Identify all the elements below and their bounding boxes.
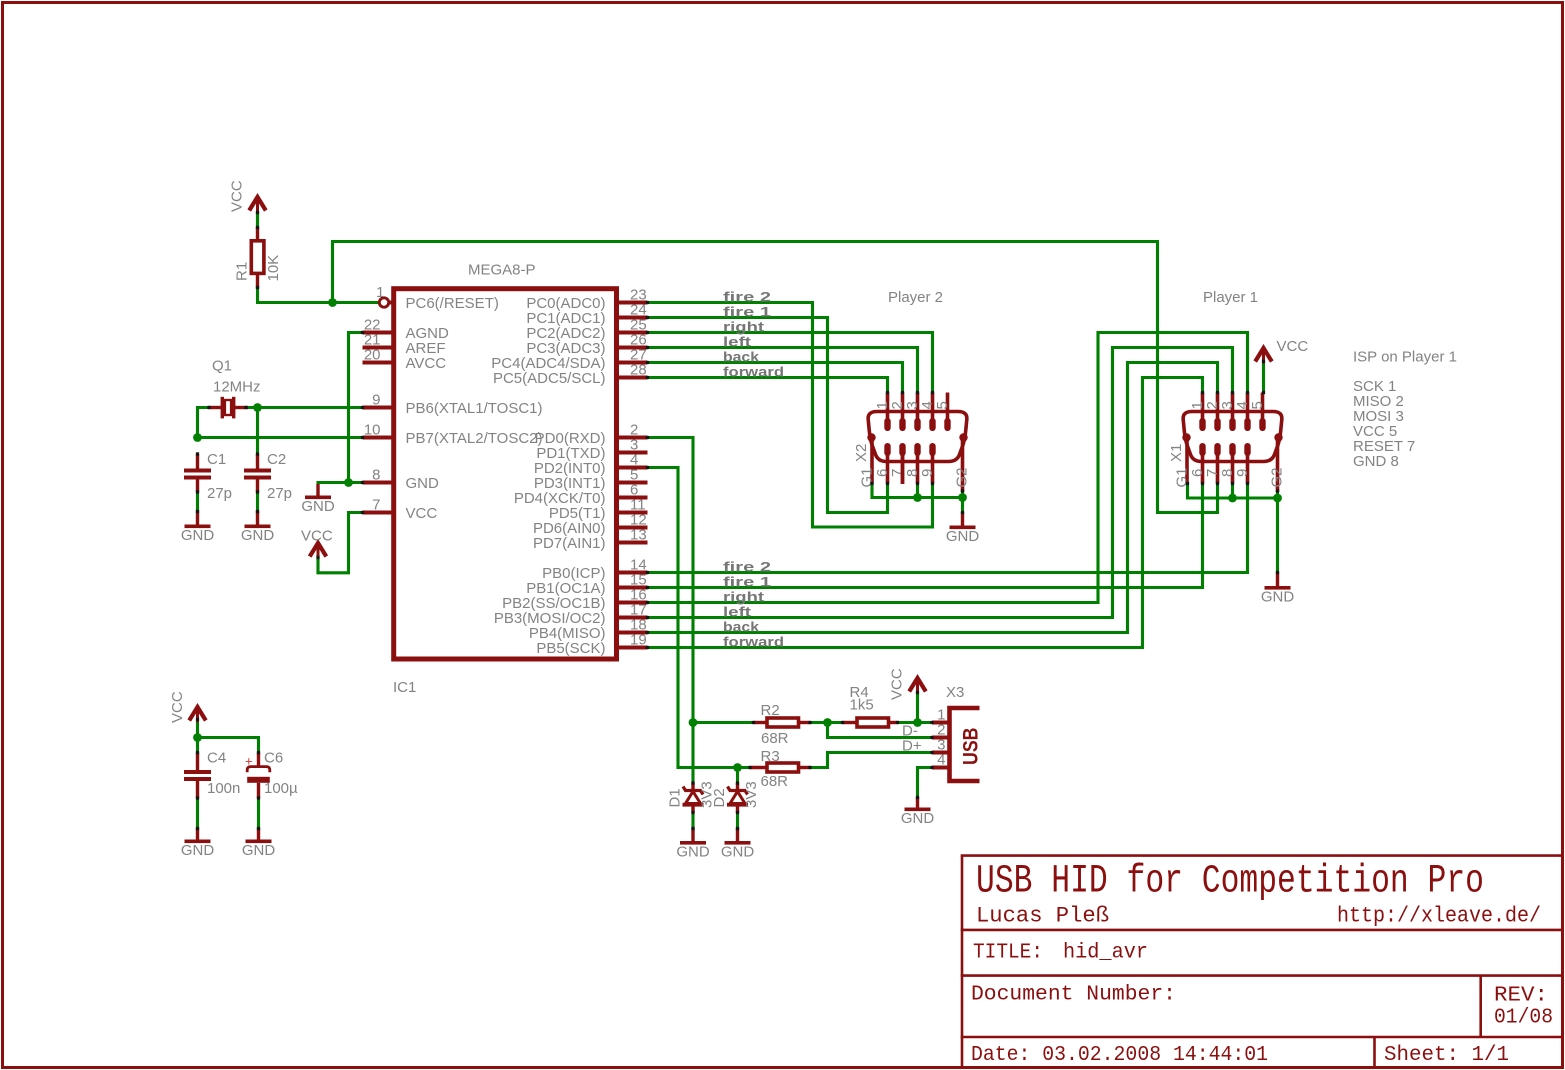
junction VCC/C4/C6 — [193, 733, 202, 742]
svg-text:REV:: REV: — [1494, 985, 1548, 1008]
svg-text:fire 2: fire 2 — [723, 289, 771, 305]
svg-text:G2: G2 — [1269, 467, 1286, 487]
zener diode D1 3V3 — [691, 783, 694, 791]
IC1 pin 27 PC4(ADC4/SDA) — [619, 361, 648, 365]
svg-text:IC1: IC1 — [393, 679, 416, 696]
wire net fire_1 P1 (PB1 pin15) to X1 pin6 — [648, 484, 1203, 588]
IC1 pin 2 PD0(RXD) — [619, 436, 648, 440]
wire R3 right to USB pin3 — [810, 753, 933, 768]
ground symbol at IC1 pin8 — [316, 484, 319, 496]
resistor R4 1k5 — [842, 721, 857, 724]
wire R4 right to VCC junction and USB pin1 — [897, 721, 932, 724]
svg-text:Sheet: 1/1: Sheet: 1/1 — [1384, 1044, 1509, 1067]
svg-text:X2: X2 — [853, 444, 870, 462]
svg-text:GND: GND — [676, 844, 710, 861]
svg-text:Lucas Pleß: Lucas Pleß — [976, 904, 1109, 929]
junction VCC/USB pin1 — [913, 718, 922, 727]
svg-text:GND: GND — [242, 842, 276, 859]
IC1 pin 14 PB0(ICP) — [619, 571, 648, 575]
svg-text:4: 4 — [937, 752, 945, 769]
svg-text:01/08: 01/08 — [1494, 1007, 1553, 1030]
IC1 pin 24 PC1(ADC1) — [619, 316, 648, 320]
IC1 pin 25 PC2(ADC2) — [619, 331, 648, 335]
IC1 pin 12 PD6(AIN0) — [619, 526, 648, 530]
svg-text:VCC: VCC — [1277, 338, 1309, 355]
IC1 pin 19 PB5(SCK) — [619, 646, 648, 650]
svg-text:C1: C1 — [207, 451, 226, 468]
svg-text:X1: X1 — [1168, 444, 1185, 462]
wire X1 pin5 to VCC arrow — [1262, 361, 1265, 393]
wire R2 right to R4 junction — [810, 721, 828, 724]
IC1 pin 16 PB2(SS/OC1B) — [619, 601, 648, 605]
junction R2/R4/D- — [823, 718, 832, 727]
svg-text:27p: 27p — [207, 485, 232, 502]
IC1 pin 4 PD2(INT0) — [619, 466, 648, 470]
svg-text:19: 19 — [630, 632, 647, 649]
svg-text:VCC: VCC — [169, 691, 186, 723]
IC1 pin 26 PC3(ADC3) — [619, 346, 648, 350]
ground symbol below C2 — [256, 511, 259, 525]
svg-text:back: back — [723, 349, 759, 365]
connector X2 DB9 Player 2 — [868, 412, 967, 462]
X3 pin 3 — [932, 751, 948, 755]
wire net forward (PC5 pin28) to X2 pin1 — [648, 378, 888, 393]
capacitor C1 27p — [196, 454, 199, 469]
junction RESET at pin1 wire — [328, 298, 337, 307]
svg-text:+: + — [245, 754, 253, 769]
svg-text:GND: GND — [946, 528, 980, 545]
wire AGND to GND vertical — [349, 333, 363, 483]
svg-text:PC6(/RESET): PC6(/RESET) — [406, 295, 499, 312]
X3 pin 1 — [932, 721, 948, 725]
wire X2 G2 to ground symbol — [961, 491, 964, 513]
svg-text:D2: D2 — [711, 788, 728, 807]
IC1 pin 8 GND — [363, 481, 392, 485]
wire C6 bottom to ground — [257, 798, 260, 829]
zener diode D2 3V3 — [736, 783, 739, 791]
svg-text:Player 2: Player 2 — [888, 289, 943, 306]
svg-text:D1: D1 — [667, 788, 684, 807]
wire XTAL2 up to crystal left — [198, 408, 211, 438]
svg-text:left: left — [723, 334, 751, 350]
svg-text:8: 8 — [372, 467, 380, 484]
svg-text:VCC: VCC — [301, 528, 333, 545]
svg-text:D+: D+ — [902, 738, 922, 755]
wire net left (PC3 pin26) to X2 pin3 — [648, 348, 918, 393]
wire X1 G2 to ground symbol — [1276, 491, 1279, 573]
wire XTAL1 net pin9 — [244, 406, 363, 409]
junction X2 G2 bus — [958, 493, 967, 502]
svg-text:5: 5 — [1249, 401, 1266, 409]
X3 pin 2 — [932, 736, 948, 740]
wire net D+ from IC1 pin4 — [648, 468, 751, 768]
junction X1 pin8 bus — [1228, 494, 1237, 503]
svg-text:right: right — [723, 319, 764, 335]
svg-text:10K: 10K — [265, 255, 282, 282]
wire net right (PC2 pin25) to X2 pin4 — [648, 333, 933, 393]
svg-text:R1: R1 — [234, 262, 251, 281]
VCC supply at IC1 pin7 — [310, 543, 327, 557]
svg-text:GND: GND — [406, 475, 440, 492]
svg-text:GND 8: GND 8 — [1353, 453, 1399, 470]
capacitor C4 100n — [196, 753, 199, 771]
svg-text:GND: GND — [241, 527, 275, 544]
ground symbol below USB pin4 — [916, 797, 919, 808]
junction D-/D1 — [689, 718, 698, 727]
ground symbol below D2 — [736, 828, 739, 842]
svg-text:C2: C2 — [267, 451, 286, 468]
wire net right P1 (PB2 pin16) to X1 pin4 — [648, 333, 1248, 603]
junction GND at pin8 — [344, 478, 353, 487]
svg-text:C6: C6 — [264, 750, 283, 767]
svg-text:10: 10 — [364, 422, 381, 439]
ground symbol below X2 G2 — [961, 512, 964, 526]
wire D2 to ground — [736, 812, 739, 829]
svg-text:VCC: VCC — [889, 668, 906, 700]
IC1 pin 15 PB1(OC1A) — [619, 586, 648, 590]
svg-text:PC5(ADC5/SCL): PC5(ADC5/SCL) — [493, 370, 606, 387]
wire D1 to ground — [691, 812, 694, 829]
svg-text:7: 7 — [372, 497, 380, 514]
svg-text:5: 5 — [934, 401, 951, 409]
svg-text:left: left — [723, 604, 751, 620]
svg-text:PB6(XTAL1/TOSC1): PB6(XTAL1/TOSC1) — [406, 400, 543, 417]
svg-text:R2: R2 — [761, 702, 780, 719]
svg-text:12MHz: 12MHz — [213, 379, 261, 396]
IC1 pin 10 PB7(XTAL2/TOSC2) — [363, 436, 392, 440]
junction X1 G2 bus — [1273, 494, 1282, 503]
wire X2 pin8 to bus — [916, 484, 919, 498]
IC1 pin 21 AREF — [363, 346, 392, 350]
wire net D- from IC1 pin2 — [648, 438, 694, 723]
svg-text:Date: 03.02.2008 14:44:01: Date: 03.02.2008 14:44:01 — [971, 1044, 1268, 1067]
IC1 pin 1 PC6(/RESET) — [389, 301, 392, 305]
wire RESET net: R1 to IC1 pin1 — [258, 288, 379, 303]
svg-text:G2: G2 — [954, 467, 971, 487]
svg-text:fire 1: fire 1 — [723, 574, 771, 590]
IC1 pin 23 PC0(ADC0) — [619, 301, 648, 305]
svg-text:VCC: VCC — [229, 180, 246, 212]
connector X3 USB body — [950, 708, 980, 781]
VCC supply at C4/C6 — [189, 707, 206, 721]
svg-text:forward: forward — [723, 364, 784, 380]
ground symbol below C1 — [196, 511, 199, 525]
wire C4 top lead — [196, 738, 199, 754]
wire C2 lower lead to ground — [256, 491, 259, 512]
IC1 pin 5 PD3(INT1) — [619, 481, 648, 485]
svg-text:PB7(XTAL2/TOSC2): PB7(XTAL2/TOSC2) — [406, 430, 543, 447]
wire color transition ticks — [196, 213, 1279, 829]
svg-text:hid_avr: hid_avr — [1063, 942, 1148, 965]
ground symbol below C6 — [257, 828, 260, 840]
svg-text:28: 28 — [630, 362, 647, 379]
svg-text:ISP on Player 1: ISP on Player 1 — [1353, 349, 1457, 366]
ground symbol below X1 G2 — [1276, 572, 1279, 586]
junction D+/D2 — [733, 763, 742, 772]
IC1 pin 18 PB4(MISO) — [619, 631, 648, 635]
wire XTAL1 to C2 — [256, 408, 259, 456]
resistor R3 68R — [750, 766, 768, 769]
svg-text:9: 9 — [919, 469, 936, 477]
svg-text:http://xleave.de/: http://xleave.de/ — [1337, 904, 1541, 929]
VCC supply at X1 pin5 — [1255, 348, 1272, 362]
svg-text:GND: GND — [181, 527, 215, 544]
X3 pin 4 — [932, 766, 948, 770]
wire junction to C6 — [198, 738, 259, 754]
IC1 pin 7 VCC — [363, 511, 392, 515]
IC1 pin 17 PB3(MOSI/OC2) — [619, 616, 648, 620]
resistor R1 10K — [256, 211, 259, 229]
title block frame — [961, 856, 1563, 1069]
svg-text:X3: X3 — [946, 684, 964, 701]
wire XTAL2 net pin10 — [198, 436, 363, 439]
wire D1 branch down — [691, 723, 694, 784]
svg-text:27p: 27p — [267, 485, 292, 502]
svg-text:100n: 100n — [207, 780, 240, 797]
wire R4 left lead join — [828, 721, 844, 724]
junction XTAL2/C1 — [193, 433, 202, 442]
svg-text:TITLE:: TITLE: — [973, 942, 1043, 965]
wire VCC stem at USB — [916, 693, 919, 723]
svg-text:GND: GND — [901, 810, 935, 827]
IC1 pin 22 AGND — [363, 331, 392, 335]
svg-text:100µ: 100µ — [264, 780, 298, 797]
wire VCC pin7 to supply arrow — [318, 513, 363, 573]
wire VCC to C4/C6 — [196, 720, 199, 738]
wire net left P1 (PB3 pin17) to X1 pin3 — [648, 348, 1233, 618]
IC1 pin 20 AVCC — [363, 361, 392, 365]
resistor R2 68R — [753, 721, 767, 724]
wire C4 bottom to ground — [196, 798, 199, 829]
svg-text:Player 1: Player 1 — [1203, 289, 1258, 306]
svg-text:9: 9 — [372, 392, 380, 409]
svg-text:13: 13 — [630, 527, 647, 544]
svg-text:3V3: 3V3 — [743, 781, 760, 808]
wire net fire_2 (PC0 pin23) to X2 pin9 — [648, 303, 933, 528]
svg-text:fire 1: fire 1 — [723, 304, 771, 320]
IC IC1 MEGA8-P body — [394, 289, 617, 659]
svg-text:AVCC: AVCC — [406, 355, 447, 372]
VCC supply above R1 — [249, 197, 266, 211]
wire X2 ground bus G1-pin8-G2 — [872, 484, 963, 498]
svg-text:forward: forward — [723, 634, 784, 650]
wire X1 pin8 to bus — [1231, 484, 1234, 499]
IC1 pin 9 PB6(XTAL1/TOSC1) — [363, 406, 392, 410]
junction X2 pin8 bus — [913, 493, 922, 502]
IC1 pin 6 PD4(XCK/T0) — [619, 496, 648, 500]
svg-text:68R: 68R — [761, 730, 789, 747]
svg-text:1: 1 — [376, 284, 384, 301]
svg-text:PB5(SCK): PB5(SCK) — [536, 640, 605, 657]
wire GND pin8 to ground symbol — [318, 481, 363, 484]
wire net fire_2 P1 (PB0 pin14) to X1 pin9 — [648, 484, 1248, 573]
ground symbol below C4 — [196, 828, 199, 840]
crystal Q1 12MHz — [208, 406, 222, 409]
svg-text:fire 2: fire 2 — [723, 559, 771, 575]
svg-text:USB HID for Competition Pro: USB HID for Competition Pro — [976, 860, 1484, 905]
wire net fire_1 (PC1 pin24) to X2 pin6 — [648, 318, 888, 513]
IC1 pin 28 PC5(ADC5/SCL) — [619, 376, 648, 380]
svg-text:20: 20 — [364, 347, 381, 364]
wire D2 branch down — [736, 768, 739, 784]
connector X1 DB9 Player 1 — [1183, 412, 1282, 462]
svg-text:GND: GND — [181, 842, 215, 859]
wire D- to USB pin2 — [828, 723, 933, 738]
svg-text:Q1: Q1 — [212, 358, 232, 375]
svg-text:Document Number:: Document Number: — [971, 984, 1176, 1007]
VCC supply at USB — [909, 678, 926, 692]
svg-text:68R: 68R — [761, 773, 789, 790]
svg-text:MEGA8-P: MEGA8-P — [468, 262, 536, 279]
junction XTAL1/C2 — [253, 403, 262, 412]
wire net back P1 (PB4 pin18) to X1 pin2 — [648, 363, 1218, 633]
svg-text:1k5: 1k5 — [850, 697, 874, 714]
svg-text:9: 9 — [1234, 469, 1251, 477]
svg-text:GND: GND — [1261, 589, 1295, 606]
svg-text:right: right — [723, 589, 764, 605]
wire RESET net: long route to X1 pin7 — [333, 242, 1218, 513]
wire net back (PC4 pin27) to X2 pin2 — [648, 363, 903, 393]
wire net forward P1 (PB5 pin19) to X1 pin1 — [648, 378, 1203, 648]
wire USB pin4 to ground — [918, 768, 933, 798]
IC1 pin 13 PD7(AIN1) — [619, 541, 648, 545]
svg-text:USB: USB — [960, 728, 983, 766]
IC1 pin 11 PD5(T1) — [619, 511, 648, 515]
svg-text:R3: R3 — [761, 748, 780, 765]
svg-text:GND: GND — [301, 498, 335, 515]
svg-text:back: back — [723, 619, 759, 635]
wire D- junction to R2 — [693, 721, 754, 724]
X2 pin7 unconnected stub — [901, 450, 905, 484]
svg-text:PD7(AIN1): PD7(AIN1) — [533, 535, 606, 552]
svg-text:VCC: VCC — [406, 505, 438, 522]
wire C1 lower lead to ground — [196, 491, 199, 512]
ground symbol below D1 — [691, 828, 694, 842]
wire X1 ground bus G1-pin8-G2 — [1188, 484, 1278, 499]
svg-text:C4: C4 — [207, 750, 226, 767]
capacitor C6 100u electrolytic — [257, 753, 260, 767]
capacitor C2 27p — [256, 454, 259, 469]
svg-text:GND: GND — [721, 844, 755, 861]
IC1 pin 3 PD1(TXD) — [619, 451, 648, 455]
